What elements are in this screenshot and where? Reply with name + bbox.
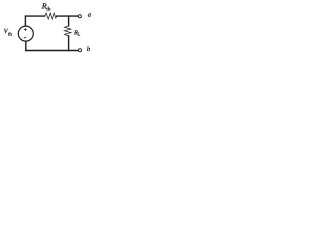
svg-text:th: th: [8, 32, 12, 38]
svg-text:a: a: [88, 12, 92, 19]
svg-text:th: th: [46, 6, 50, 12]
svg-text:L: L: [78, 32, 81, 37]
svg-text:b: b: [87, 46, 91, 53]
